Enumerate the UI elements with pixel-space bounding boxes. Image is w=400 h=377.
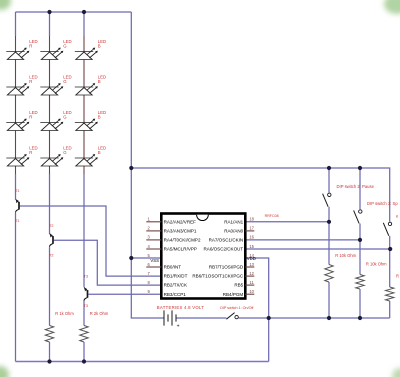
wire LED column 2 (through LEDs) — [49, 36, 51, 174]
wire R10k-1 to rail — [328, 282, 330, 318]
svg-text:11: 11 — [249, 280, 254, 285]
wire top supply bus — [16, 11, 132, 13]
svg-text:RRFC08: RRFC08 — [265, 214, 279, 218]
svg-text:15: 15 — [249, 244, 254, 249]
svg-text:R 10k Ohm: R 10k Ohm — [396, 274, 400, 279]
wire R2k to bottom rail — [83, 342, 85, 362]
switch DIP switch 3 — [359, 210, 362, 213]
svg-text:RA5/MCLR/VPP: RA5/MCLR/VPP — [164, 247, 197, 252]
wire LED column 1 top segment — [15, 12, 17, 36]
wire T2 emitter to R1k — [49, 247, 51, 325]
wire T2 base to IC pin8 — [54, 240, 162, 285]
wire IC pin15 to switch4 column — [245, 248, 390, 250]
svg-text:B: B — [98, 115, 101, 120]
svg-text:R: R — [29, 115, 32, 120]
resistor R10k-1 — [325, 265, 333, 283]
svg-text:RA6/OSC2/CKOUT: RA6/OSC2/CKOUT — [204, 247, 244, 252]
wire R10k-3 to rail corner — [389, 301, 391, 318]
junction central bus / pin5 wire — [129, 256, 133, 260]
LED D8 (G) — [40, 119, 63, 131]
wire LED column 2 top segment — [49, 12, 51, 36]
junction top bus / column3 — [82, 10, 86, 14]
wire T1 emitter to bottom rail — [15, 213, 17, 362]
svg-text:T2: T2 — [49, 224, 53, 228]
wire switch2 column upper — [328, 168, 330, 193]
junction VDD / rail — [267, 316, 271, 320]
svg-text:+: + — [177, 323, 180, 329]
wire IC pin16 to switch3 column — [245, 239, 360, 241]
svg-text:BATTERIES 4.8 VOLT: BATTERIES 4.8 VOLT — [157, 305, 204, 310]
LED D12 (B) — [75, 154, 98, 166]
pin numbers right — [249, 217, 254, 294]
svg-text:DIP switch 2: Pause: DIP switch 2: Pause — [337, 184, 375, 189]
svg-text:RB1/RX/DT: RB1/RX/DT — [164, 274, 188, 279]
junction middle bus / switch2 column — [327, 166, 331, 170]
svg-text:18: 18 — [249, 217, 254, 222]
wire switch4 column to R10k — [389, 236, 391, 287]
IC pin names right — [192, 219, 244, 296]
svg-text:RA3/AN3/CMP1: RA3/AN3/CMP1 — [164, 229, 197, 234]
svg-text:T3: T3 — [84, 304, 88, 308]
svg-text:R: R — [29, 79, 32, 84]
svg-text:B: B — [98, 150, 101, 155]
wire LED column 1 (through LEDs) — [15, 36, 17, 174]
svg-text:R 2k Ohm: R 2k Ohm — [90, 311, 109, 316]
junction top bus / column2 — [47, 10, 51, 14]
wire switch3 column upper — [359, 168, 361, 209]
wire T3 base to IC pin9 — [89, 293, 162, 295]
wire battery rail right of battery — [176, 317, 226, 319]
wire VDD drop to bottom rail link — [268, 318, 270, 362]
svg-text:R 10k Ohm: R 10k Ohm — [335, 253, 356, 258]
LED D4 (R) — [6, 83, 29, 95]
svg-text:R: R — [29, 150, 32, 155]
pin stubs left (1,2,3,4,6) — [146, 221, 161, 223]
junction pin18 net — [327, 220, 331, 224]
svg-text:RA0/AN0: RA0/AN0 — [224, 229, 243, 234]
transistor T3 — [84, 287, 88, 300]
svg-text:DIP switch 1: On/Off: DIP switch 1: On/Off — [220, 306, 254, 310]
svg-text:B: B — [98, 79, 101, 84]
svg-text:VDD: VDD — [247, 256, 256, 261]
svg-text:DIP switch 3: Sp: DIP switch 3: Sp — [367, 201, 398, 206]
svg-text:RB4/PGM: RB4/PGM — [223, 292, 244, 297]
wire IC pin18 to switch2 column — [245, 221, 329, 223]
LED D11 (G) — [40, 154, 63, 166]
resistor R10k-3 — [386, 287, 394, 301]
resistor R2k — [80, 326, 88, 343]
IC pin names left — [164, 219, 201, 296]
junction central bus / middle bus — [129, 166, 133, 170]
svg-text:16: 16 — [249, 235, 254, 240]
switch DIP switch 1 (on/off) — [226, 313, 234, 320]
LED D10 (R) — [6, 154, 29, 166]
transistor T2 — [50, 234, 54, 247]
wire IC pin14 VDD to rail — [245, 258, 268, 318]
wire central vertical bus down to battery — [131, 12, 163, 318]
pin stubs right (17,13,12,11,10) — [245, 230, 254, 232]
wire R10k-2 to rail — [359, 289, 361, 318]
wire R1k to bottom rail — [49, 342, 51, 362]
svg-text:12: 12 — [249, 271, 254, 276]
wire switch3 column to R10k — [359, 224, 361, 275]
svg-text:RA1/AN1: RA1/AN1 — [224, 219, 243, 224]
op-amp U1 PIC16F628 body — [161, 214, 245, 299]
svg-text:T1: T1 — [15, 189, 19, 193]
svg-text:R: R — [29, 44, 32, 49]
wire rail from switch1 to right corner — [239, 317, 390, 319]
svg-text:VSS: VSS — [150, 258, 159, 263]
LED D9 (B) — [75, 119, 98, 131]
svg-text:RA7/OSC1/CKIN: RA7/OSC1/CKIN — [209, 238, 244, 243]
resistor R1k — [45, 326, 53, 343]
junction R2k / bottom rail — [82, 359, 86, 363]
junction R10k-1 / rail — [327, 316, 331, 320]
LED D2 (G) — [40, 48, 63, 60]
LED D7 (R) — [6, 119, 29, 131]
svg-text:T1: T1 — [15, 219, 19, 223]
wire T3 emitter to R2k — [83, 301, 85, 326]
svg-text:RB5: RB5 — [234, 283, 243, 288]
wire LED column 3 (through LEDs) — [83, 36, 85, 174]
wire column3 to T3 collector — [83, 174, 85, 287]
junction pin16 net — [358, 238, 362, 242]
switch DIP switch 4 — [388, 222, 391, 225]
LED D3 (B) — [75, 48, 98, 60]
svg-text:R 1k Ohm: R 1k Ohm — [55, 311, 74, 316]
svg-text:RA2/AN2/VREF: RA2/AN2/VREF — [164, 219, 197, 224]
LED D5 (G) — [40, 83, 63, 95]
transistor T1 — [16, 199, 20, 212]
svg-text:RB6/T1OSO/T1CKI/PGC: RB6/T1OSO/T1CKI/PGC — [192, 274, 244, 279]
svg-text:17: 17 — [249, 226, 254, 231]
svg-text:T2: T2 — [49, 254, 53, 258]
svg-text:RB7/T1OSI/PGD: RB7/T1OSI/PGD — [209, 265, 244, 270]
LED D6 (B) — [75, 83, 98, 95]
junction middle bus / switch3 column — [358, 166, 362, 170]
svg-text:RB0/INT: RB0/INT — [164, 265, 182, 270]
switch DIP switch 2 — [328, 193, 331, 196]
junction pin15 net — [388, 247, 392, 251]
svg-text:R 10k Ohm: R 10k Ohm — [366, 262, 387, 267]
pin numbers left — [147, 217, 150, 294]
wire bottom ground rail — [16, 361, 269, 363]
svg-text:B: B — [98, 44, 101, 49]
svg-text:10: 10 — [249, 289, 254, 294]
svg-text:T3: T3 — [84, 275, 88, 279]
wire column2 to T2 collector — [49, 174, 51, 234]
wire LED column 3 top segment — [83, 12, 85, 36]
wire middle horizontal bus to right columns — [131, 168, 389, 222]
LED D1 (R) — [6, 48, 29, 60]
wire switch2 column to R10k — [328, 207, 330, 265]
resistor R10k-2 — [356, 275, 364, 290]
svg-text:RA4/T0CKI/CMP2: RA4/T0CKI/CMP2 — [164, 238, 201, 243]
junction R10k-2 / rail — [358, 316, 362, 320]
wire column1 to T1 collector — [15, 174, 17, 199]
wire VSS bus to IC pin5 — [131, 257, 161, 259]
wire T1 base to IC pin7 — [20, 206, 162, 276]
svg-text:13: 13 — [249, 262, 254, 267]
junction R1k / bottom rail — [47, 359, 51, 363]
svg-text:RB3/CCP1: RB3/CCP1 — [164, 292, 187, 297]
svg-text:RB2/TX/CK: RB2/TX/CK — [164, 283, 188, 288]
battery B1 4.8V — [164, 310, 176, 325]
IC notch — [197, 215, 209, 221]
